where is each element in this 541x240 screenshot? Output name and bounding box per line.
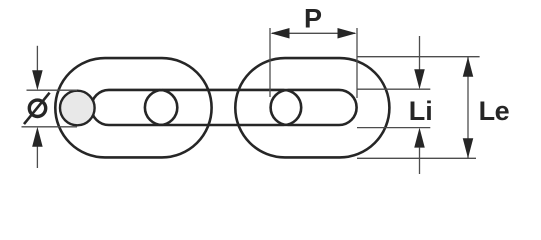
svg-text:P: P [304, 4, 322, 34]
svg-text:Li: Li [409, 96, 433, 126]
svg-text:Le: Le [479, 96, 510, 126]
